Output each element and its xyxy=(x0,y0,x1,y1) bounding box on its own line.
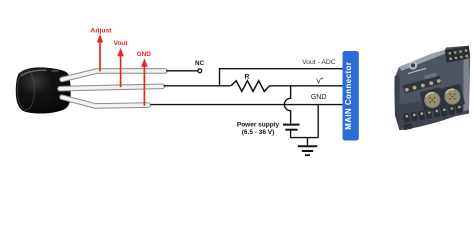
wire: supply branch from V+ rail down (hops over GND wire) xyxy=(284,86,290,124)
module mid terminal row xyxy=(403,76,441,94)
svg-text:NC: NC xyxy=(195,60,205,67)
svg-text:MAIN Connector: MAIN Connector xyxy=(344,62,353,130)
wire: capacitor to ground rail xyxy=(290,131,292,138)
NC terminal (open circle) xyxy=(198,69,202,73)
arrow Adjust xyxy=(97,34,104,71)
wire: GND net down to ground rail xyxy=(317,105,319,138)
svg-text:Power supply: Power supply xyxy=(237,121,280,128)
circular connector right xyxy=(442,86,462,106)
svg-text:R: R xyxy=(245,74,250,81)
connector flanges xyxy=(420,87,445,112)
MAIN Connector xyxy=(343,51,359,141)
lead 2 (Vout pin) xyxy=(60,86,163,88)
svg-text:Vout - ADC: Vout - ADC xyxy=(302,59,336,66)
arrow Vout xyxy=(117,48,124,87)
module top face xyxy=(399,50,445,71)
wire: Vout lead to node A and resistor xyxy=(164,85,231,87)
module lower front band xyxy=(395,95,469,131)
svg-text:+: + xyxy=(321,76,324,82)
TO-92 sensor package body xyxy=(16,67,71,113)
capacitor C top plate xyxy=(283,124,300,126)
module terminal strip (top right) xyxy=(445,46,470,63)
svg-text:(6.5 - 36 V): (6.5 - 36 V) xyxy=(242,129,275,136)
ground rail xyxy=(291,137,319,139)
wire: node A up to Vout-ADC rail xyxy=(220,69,343,86)
module body xyxy=(395,46,471,130)
module small label xyxy=(424,72,437,80)
module left side panel xyxy=(394,74,399,130)
svg-text:Vout: Vout xyxy=(114,40,129,47)
resistor R xyxy=(231,81,270,92)
lead 1 (Adjust pin) xyxy=(62,71,165,80)
DAQ module (photo, right side) xyxy=(394,46,470,131)
svg-text:Adjust: Adjust xyxy=(90,28,112,35)
module logo xyxy=(409,61,417,69)
circular connector left xyxy=(422,90,443,111)
module foot xyxy=(404,123,413,130)
wire: GND lead to connector xyxy=(151,104,343,106)
svg-text:GND: GND xyxy=(137,51,152,58)
svg-text:GND: GND xyxy=(311,94,327,101)
module bottom jacks xyxy=(403,104,463,123)
module right side face (lit) xyxy=(464,58,469,112)
arrow GND xyxy=(141,58,148,105)
ground symbol xyxy=(298,138,317,156)
wire: Adjust lead to NC terminal xyxy=(166,70,198,72)
wire: resistor to V+ pin of connector xyxy=(270,85,343,87)
capacitor C bottom plate xyxy=(285,129,297,131)
lead 3 (GND pin) xyxy=(62,97,148,106)
